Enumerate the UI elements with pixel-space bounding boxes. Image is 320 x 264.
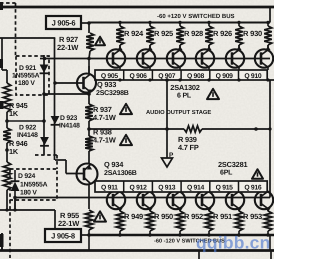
svg-text:R 925: R 925 [154,29,173,38]
svg-text:2SC3298B: 2SC3298B [96,90,129,97]
svg-text:Q 905: Q 905 [101,73,119,80]
svg-text:1N5955A: 1N5955A [12,73,40,80]
svg-text:R 951: R 951 [213,212,232,221]
svg-text:R 952: R 952 [184,212,203,221]
svg-text:Q 906: Q 906 [130,73,148,80]
svg-text:Q 910: Q 910 [244,73,262,80]
svg-text:180 V: 180 V [18,80,35,87]
svg-text:R 949: R 949 [124,212,143,221]
svg-text:4.7-1W: 4.7-1W [93,113,116,122]
svg-text:IN4148: IN4148 [59,123,80,130]
svg-text:4.7-1W: 4.7-1W [93,136,116,145]
svg-text:180 V: 180 V [20,190,37,197]
svg-text:22-1W: 22-1W [58,219,80,228]
svg-text:D 922: D 922 [19,125,37,132]
svg-text:R 924: R 924 [124,29,144,38]
svg-text:Q 912: Q 912 [130,184,148,191]
svg-text:1K: 1K [9,147,19,156]
svg-text:R 930: R 930 [243,29,262,38]
svg-text:22-1W: 22-1W [57,43,79,52]
svg-text:R 950: R 950 [154,212,173,221]
svg-text:IN4148: IN4148 [17,132,38,139]
svg-text:J 905-8: J 905-8 [51,232,75,241]
svg-text:2SC3281: 2SC3281 [218,160,248,169]
svg-text:J 905-6: J 905-6 [52,19,76,28]
svg-text:Q 933: Q 933 [97,80,116,89]
svg-text:Q 916: Q 916 [244,184,262,191]
svg-text:D 923: D 923 [60,115,78,122]
svg-text:2SA1306B: 2SA1306B [104,170,137,177]
svg-text:R 928: R 928 [184,29,203,38]
svg-text:Q 934: Q 934 [104,160,124,169]
svg-text:Q 908: Q 908 [187,73,205,80]
svg-text:Q 914: Q 914 [187,184,205,191]
svg-text:Q 911: Q 911 [101,184,118,191]
svg-text:Q 909: Q 909 [216,73,234,80]
svg-text:1N5955A: 1N5955A [20,182,48,189]
svg-text:1K: 1K [9,109,19,118]
svg-text:AUDIO OUTPUT STAGE: AUDIO OUTPUT STAGE [146,109,211,116]
svg-text:-60 +120 V SWITCHED BUS: -60 +120 V SWITCHED BUS [157,13,235,20]
svg-text:R 953: R 953 [243,212,262,221]
svg-text:D 924: D 924 [18,173,36,180]
svg-text:2SA1302: 2SA1302 [170,83,200,92]
svg-text:6 PL: 6 PL [177,93,192,100]
svg-text:D 921: D 921 [19,65,37,72]
svg-text:R 926: R 926 [213,29,232,38]
svg-text:4.7 FP: 4.7 FP [178,143,199,152]
svg-text:qqibb.cn: qqibb.cn [196,233,271,253]
svg-text:6PL: 6PL [220,170,233,177]
svg-text:Q 915: Q 915 [216,184,234,191]
svg-text:Q 913: Q 913 [158,184,176,191]
